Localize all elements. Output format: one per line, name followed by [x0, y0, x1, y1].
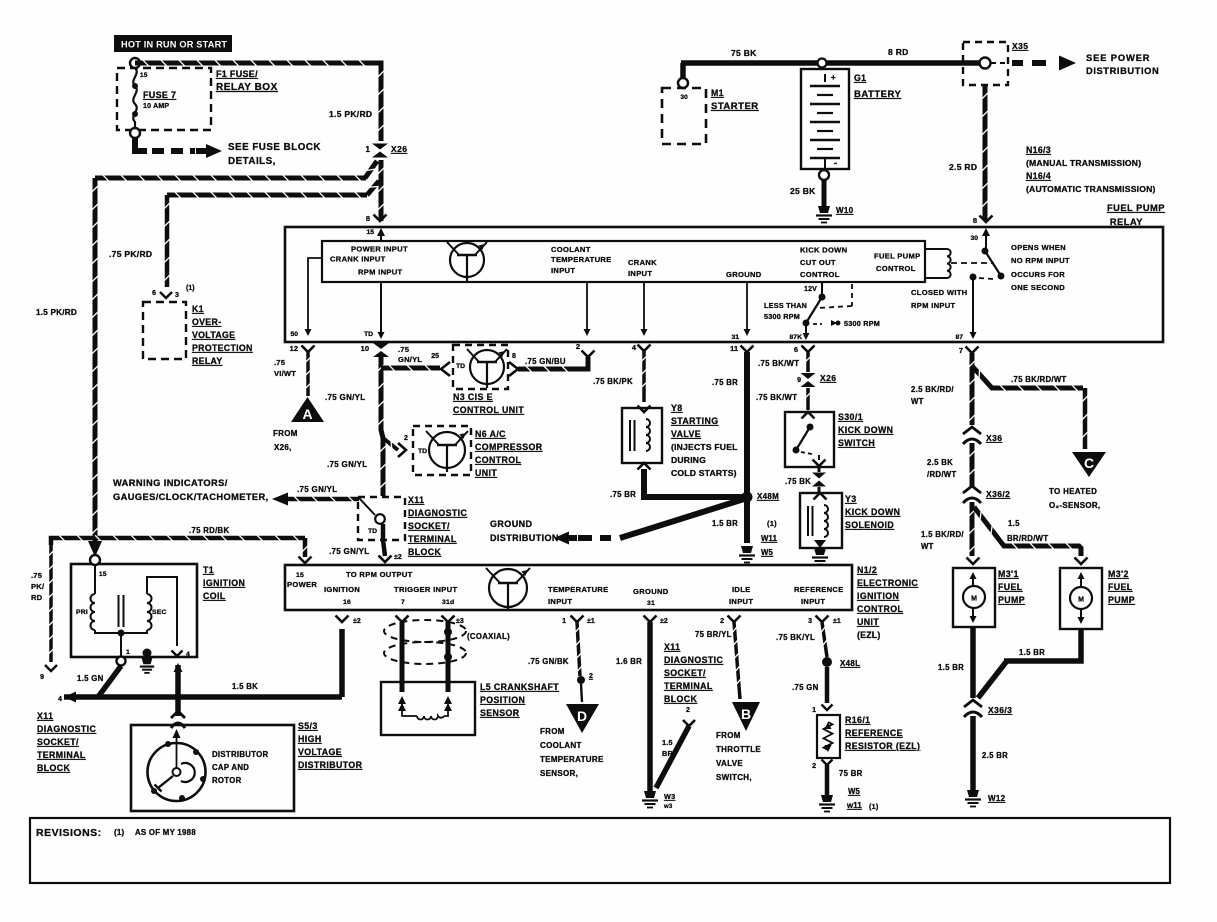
svg-text:±1: ±1 [833, 618, 841, 625]
EZL trigger pins [396, 616, 409, 623]
svg-text:WARNING INDICATORS/: WARNING INDICATORS/ [113, 478, 228, 488]
svg-text:1: 1 [812, 707, 816, 714]
ground W10 [818, 206, 830, 213]
wire M3p1 down to X36/3 [970, 627, 976, 698]
arrow SEE POWER DISTRIBUTION [1012, 60, 1026, 66]
svg-text:INPUT: INPUT [801, 597, 825, 606]
svg-text:(INJECTS FUEL: (INJECTS FUEL [671, 442, 738, 452]
svg-text:S30/1: S30/1 [838, 412, 863, 422]
svg-text:1.5: 1.5 [662, 738, 673, 747]
svg-text:TEMPERATURE: TEMPERATURE [548, 585, 609, 594]
fuel pump M3p2 box [1075, 558, 1088, 565]
svg-text:INPUT: INPUT [729, 597, 753, 606]
svg-text:X26: X26 [391, 144, 407, 154]
svg-text:RESISTOR (EZL): RESISTOR (EZL) [845, 741, 920, 751]
starter M1 (dashed box) [662, 88, 706, 144]
svg-text:N3 CIS E: N3 CIS E [453, 392, 493, 402]
wire up to EZL ignition pin [339, 629, 345, 697]
svg-text:DIAGNOSTIC: DIAGNOSTIC [37, 724, 96, 734]
svg-text:IDLE: IDLE [732, 585, 751, 594]
svg-text:.75 BK/WT: .75 BK/WT [758, 359, 799, 368]
EZL ground pin [644, 616, 657, 623]
svg-text:BR/RD/WT: BR/RD/WT [1007, 534, 1048, 543]
wire branch to horizontal run A [365, 161, 377, 178]
svg-text:S5/3: S5/3 [298, 721, 318, 731]
svg-text:(1): (1) [869, 802, 879, 811]
svg-text:.75 BK/RD/WT: .75 BK/RD/WT [1011, 375, 1067, 384]
svg-text:DIAGNOSTIC: DIAGNOSTIC [664, 655, 723, 665]
connector X36 [963, 427, 981, 434]
wire Y8 to X48M (.75 BR) [644, 469, 744, 497]
svg-text:REFERENCE: REFERENCE [845, 728, 903, 738]
svg-text:D: D [577, 708, 587, 724]
svg-text:BR: BR [662, 749, 673, 758]
battery bottom terminal + wire 25 BK [819, 170, 829, 180]
svg-text:FROM: FROM [540, 727, 565, 736]
wire arrow into T1 terminal 15 [88, 541, 102, 557]
svg-text:FUEL PUMP: FUEL PUMP [1107, 203, 1165, 213]
wire X26 down to relay pin 15 [379, 160, 384, 221]
N6 A/C compressor control unit (dashed box) [413, 426, 471, 475]
svg-text:X11: X11 [37, 711, 53, 721]
svg-text:FROM: FROM [716, 731, 741, 740]
svg-text:A: A [302, 406, 312, 422]
T1 core [118, 595, 120, 627]
ground W12 [967, 790, 979, 797]
wire trigger right [446, 622, 451, 692]
svg-text:DURING: DURING [671, 455, 706, 465]
battery G1 cells [824, 74, 826, 82]
fuse/relay box F1 (dashed) [117, 68, 211, 130]
motor M3p2 [1070, 587, 1092, 609]
svg-text:15: 15 [140, 72, 148, 79]
svg-text:7: 7 [959, 346, 963, 355]
svg-text:8: 8 [973, 216, 977, 225]
distributor S5/3 box [131, 725, 294, 811]
svg-text:RD: RD [31, 593, 43, 602]
wire .75 BK/WT upper [806, 352, 810, 372]
battery G1 junction [818, 59, 827, 68]
N3 CIS E control unit (dashed box) [453, 345, 508, 389]
svg-text:G1: G1 [854, 73, 866, 83]
svg-text:SOLENOID: SOLENOID [845, 520, 894, 530]
wire X35 down to relay pin 30 (2.5 RD) [983, 85, 988, 220]
svg-text:DISTRIBUTOR: DISTRIBUTOR [212, 750, 269, 759]
svg-text:FUEL: FUEL [1108, 582, 1133, 592]
svg-text:.75 BK/YL: .75 BK/YL [776, 633, 815, 642]
svg-text:BLOCK: BLOCK [408, 547, 442, 557]
svg-text:(1): (1) [186, 285, 195, 292]
svg-text:STARTING: STARTING [671, 416, 719, 426]
T1 bottom junction [95, 630, 147, 633]
svg-text:.75 GN/YL: .75 GN/YL [325, 393, 366, 402]
svg-text:BATTERY: BATTERY [854, 89, 901, 100]
svg-text:7: 7 [401, 599, 405, 606]
svg-text:±2: ±2 [353, 618, 361, 625]
svg-text:CRANK: CRANK [628, 258, 657, 267]
EZL N1/2 box [285, 565, 852, 610]
svg-text:.75 GN/BU: .75 GN/BU [525, 357, 566, 366]
triangle C [1072, 452, 1106, 477]
wire 12V switch to pin 87K [805, 326, 807, 334]
svg-text:CONTROL: CONTROL [475, 455, 522, 465]
svg-text:CONTROL: CONTROL [857, 604, 904, 614]
svg-text:X36: X36 [986, 433, 1002, 443]
svg-text:12: 12 [290, 344, 298, 353]
svg-text:(MANUAL TRANSMISSION): (MANUAL TRANSMISSION) [1026, 158, 1141, 168]
svg-text:.75 BR: .75 BR [610, 490, 636, 499]
relay inner control box [322, 241, 925, 282]
svg-text:Y8: Y8 [671, 403, 683, 413]
svg-text:COLD STARTS): COLD STARTS) [671, 468, 737, 478]
svg-text:TERMINAL: TERMINAL [37, 750, 86, 760]
svg-text:TERMINAL: TERMINAL [408, 534, 457, 544]
svg-text:1: 1 [562, 618, 566, 625]
wire 2.5 BR to W12 [970, 716, 976, 790]
svg-text:CLOSED WITH: CLOSED WITH [911, 288, 967, 297]
svg-text:SEE POWER: SEE POWER [1086, 53, 1150, 63]
svg-text:X11: X11 [664, 642, 680, 652]
svg-text:2.5 BR: 2.5 BR [982, 751, 1008, 760]
svg-text:31: 31 [731, 334, 739, 341]
distributor cap contacts [165, 741, 171, 747]
svg-text:DETAILS,: DETAILS, [228, 156, 276, 167]
svg-text:SOCKET/: SOCKET/ [37, 737, 79, 747]
svg-text:1.5 BK: 1.5 BK [232, 682, 258, 691]
T1 terminal 4 chevron [172, 651, 183, 657]
svg-text:COMPRESSOR: COMPRESSOR [475, 442, 543, 452]
svg-text:CAP AND: CAP AND [212, 763, 249, 772]
svg-text:(EZL): (EZL) [857, 630, 880, 640]
svg-text:PUMP: PUMP [998, 595, 1025, 605]
wire diagonal to ground distribution [620, 499, 744, 538]
wire .75 VI/WT to A [306, 352, 310, 396]
svg-text:1.5 BR: 1.5 BR [712, 519, 738, 528]
svg-text:INPUT: INPUT [628, 269, 652, 278]
arrow SEE FUSE BLOCK [206, 144, 222, 158]
svg-text:WT: WT [921, 542, 934, 551]
svg-text:.75 RD/BK: .75 RD/BK [189, 526, 229, 535]
connector X36/3 [964, 700, 982, 707]
svg-text:4: 4 [58, 696, 62, 703]
svg-text:HOT IN RUN OR START: HOT IN RUN OR START [121, 40, 227, 50]
T1 ignition coil box [71, 564, 197, 657]
svg-text:THROTTLE: THROTTLE [716, 745, 761, 754]
battery G1 box [801, 69, 849, 169]
Y8 bottom chevron [638, 463, 651, 470]
arrow + wire to warning indicators [272, 493, 288, 506]
junction X48M [742, 492, 753, 503]
svg-text:HIGH: HIGH [298, 734, 322, 744]
svg-text:COIL: COIL [203, 591, 226, 601]
svg-text:X26,: X26, [274, 443, 292, 452]
connector X36/2 [963, 486, 981, 493]
svg-text:TD: TD [364, 331, 373, 338]
wire fuse bottom to see-fuse-block arrow [135, 138, 147, 151]
svg-text:REVISIONS:: REVISIONS: [36, 827, 102, 839]
svg-text:INPUT: INPUT [548, 597, 572, 606]
svg-text:75 BR: 75 BR [839, 769, 863, 778]
transistor in N6 [429, 432, 465, 468]
svg-text:RPM INPUT: RPM INPUT [358, 268, 403, 277]
branch wire to M3p2 (1.5 BR/RD/WT) [974, 507, 1081, 556]
svg-text:WT: WT [911, 397, 924, 406]
svg-text:9: 9 [40, 674, 44, 681]
svg-text:DISTRIBUTION: DISTRIBUTION [490, 533, 559, 543]
svg-text:.75: .75 [31, 571, 43, 580]
distributor cap circle [148, 743, 206, 801]
svg-text:F1 FUSE/: F1 FUSE/ [216, 69, 258, 79]
svg-text:VOLTAGE: VOLTAGE [298, 747, 342, 757]
wire .75 GN/BU to relay pin 2 [518, 357, 588, 369]
svg-text:2: 2 [720, 618, 724, 625]
svg-text:SENSOR: SENSOR [480, 708, 520, 718]
revisions box [30, 818, 1170, 883]
wire down to K1 [165, 195, 170, 287]
wire 1.5 GN from T1 terminal 1 [98, 666, 121, 697]
distributor rotor arm [158, 776, 173, 788]
Y3 kick down solenoid box [800, 493, 842, 548]
Y8 valve top chevron [638, 406, 651, 413]
svg-text:KICK DOWN: KICK DOWN [845, 507, 900, 517]
svg-text:ELECTRONIC: ELECTRONIC [857, 578, 918, 588]
T1 secondary loop to terminal 4 [147, 577, 177, 646]
svg-text:.75 BR: .75 BR [712, 378, 738, 387]
label HOT IN RUN OR START [114, 35, 232, 52]
svg-text:50: 50 [290, 331, 298, 338]
svg-text:±1: ±1 [587, 618, 595, 625]
svg-text:IGNITION: IGNITION [203, 578, 245, 588]
transistor in N3 [470, 350, 504, 384]
svg-text:(AUTOMATIC TRANSMISSION): (AUTOMATIC TRANSMISSION) [1026, 184, 1156, 194]
svg-text:75 BR/YL: 75 BR/YL [695, 630, 732, 639]
N3 pin 8 chevron [509, 362, 518, 376]
svg-text:FUSE 7: FUSE 7 [143, 90, 176, 100]
ground W11/W5 [741, 546, 753, 553]
svg-text:31d: 31d [442, 599, 454, 606]
kick down 12V switch [821, 282, 823, 297]
svg-text:OCCURS FOR: OCCURS FOR [1011, 270, 1065, 279]
svg-text:.75 GN/YL: .75 GN/YL [327, 460, 368, 469]
svg-text:31: 31 [647, 600, 655, 607]
wire branch to N3 pin 25 [381, 366, 440, 371]
svg-text:(1): (1) [767, 519, 777, 528]
Y8 starting valve box [622, 408, 662, 463]
svg-text:6: 6 [152, 290, 156, 297]
svg-text:PK/: PK/ [31, 582, 45, 591]
svg-text:N16/4: N16/4 [1026, 171, 1051, 181]
wire branch B to vertical [367, 181, 379, 195]
EZL top pin chevron ±2 [379, 556, 392, 563]
svg-text:W5: W5 [761, 548, 774, 557]
wire .75 RD/BK horizontal [51, 538, 305, 545]
arrow to X11 pin 4 + wire 1.5 BK [64, 692, 76, 703]
svg-text:.75 GN: .75 GN [792, 683, 819, 692]
svg-text:.75: .75 [398, 345, 410, 354]
svg-text:.75: .75 [274, 358, 286, 367]
svg-text:2: 2 [589, 673, 593, 680]
svg-text:PROTECTION: PROTECTION [192, 343, 253, 353]
svg-text:1: 1 [366, 145, 371, 154]
svg-text:GROUND: GROUND [633, 587, 669, 596]
triangle D [566, 704, 599, 733]
svg-text:W10: W10 [836, 206, 854, 215]
svg-text:TRIGGER INPUT: TRIGGER INPUT [394, 585, 457, 594]
fuel pump control coil [925, 248, 947, 250]
svg-text:±3: ±3 [456, 618, 464, 625]
svg-text:3: 3 [175, 292, 179, 299]
X11 diagnostic socket (dashed box, TD circle) [358, 497, 405, 540]
svg-text:COOLANT: COOLANT [551, 245, 591, 254]
svg-text:1.5 BR: 1.5 BR [1019, 648, 1045, 657]
svg-text:8: 8 [512, 353, 516, 360]
svg-text:TO RPM OUTPUT: TO RPM OUTPUT [346, 570, 413, 579]
wire chevron to N6 pin 2 [383, 438, 398, 450]
motor M3p1 [963, 586, 985, 608]
svg-text:1.5 PK/RD: 1.5 PK/RD [329, 109, 372, 119]
svg-text:TERMINAL: TERMINAL [664, 681, 713, 691]
svg-text:RELAY: RELAY [192, 356, 223, 366]
fuse F7 symbol [130, 58, 140, 68]
svg-text:ROTOR: ROTOR [212, 776, 242, 785]
svg-text:B: B [741, 706, 751, 722]
svg-text:TD: TD [368, 528, 377, 535]
svg-text:R16/1: R16/1 [845, 715, 870, 725]
svg-text:5300 RPM: 5300 RPM [764, 312, 800, 321]
svg-text:.75 GN/YL: .75 GN/YL [297, 485, 338, 494]
wire ground .75 BR vertical [744, 352, 750, 543]
wire TD main vertical (GN/YL) [381, 357, 383, 496]
relay switch (opens when no rpm) [982, 248, 989, 255]
svg-text:CONTROL: CONTROL [876, 264, 916, 273]
svg-text:15: 15 [296, 572, 304, 579]
svg-text:DISTRIBUTOR: DISTRIBUTOR [298, 760, 363, 770]
svg-text:11: 11 [730, 344, 738, 353]
svg-text:M: M [971, 596, 977, 603]
svg-text:POSITION: POSITION [480, 695, 525, 705]
svg-text:CRANK INPUT: CRANK INPUT [330, 255, 386, 264]
fuel pump M3p1 box [967, 558, 980, 565]
L5 crankshaft position sensor box [381, 682, 475, 735]
svg-text:SOCKET/: SOCKET/ [664, 668, 706, 678]
connector bowtie below S30/1 [818, 467, 821, 472]
svg-text:W11: W11 [761, 534, 778, 543]
svg-text:6: 6 [794, 345, 798, 354]
T1 primary coil [94, 565, 96, 594]
svg-text:IGNITION: IGNITION [324, 585, 360, 594]
svg-text:PUMP: PUMP [1108, 595, 1135, 605]
connector chevron N3 pin 25 [441, 362, 450, 376]
svg-text:FUEL PUMP: FUEL PUMP [874, 252, 920, 261]
svg-text:/RD/WT: /RD/WT [927, 470, 957, 479]
svg-text:C: C [1084, 455, 1094, 471]
svg-text:SOCKET/: SOCKET/ [408, 521, 450, 531]
svg-text:25: 25 [431, 353, 439, 360]
relay K1 over-voltage protection (dashed box) [143, 302, 186, 359]
fuel pump relay outer box [285, 227, 1163, 342]
svg-text:2.5 BK: 2.5 BK [927, 458, 953, 467]
svg-text:IGNITION: IGNITION [857, 591, 899, 601]
dashed 5300 RPM contact [813, 323, 822, 325]
wire 1.6 BR ground [647, 622, 653, 791]
wire horizontal run A (to left vertical) [95, 176, 366, 181]
svg-text:8: 8 [366, 214, 370, 223]
EZL pin ignition ±2 [336, 616, 349, 623]
svg-text:w11: w11 [846, 801, 862, 810]
svg-text:30: 30 [680, 94, 688, 101]
svg-text:DIAGNOSTIC: DIAGNOSTIC [408, 508, 467, 518]
wire .75 GN/BK to D [577, 622, 580, 676]
wire trigger left [400, 622, 405, 692]
svg-text:.75 BK/WT: .75 BK/WT [756, 393, 797, 402]
wire T1 pin 4 down to distributor [174, 663, 183, 672]
crank input line to pin 50 [308, 258, 322, 329]
coaxial shield dashed ellipses [384, 620, 466, 642]
svg-text:POWER: POWER [287, 580, 317, 589]
svg-text:N1/2: N1/2 [857, 565, 877, 575]
wire .75 RD/BK down to EZL pin 15 [303, 538, 308, 557]
svg-text:W5: W5 [848, 787, 861, 796]
svg-text:W3: W3 [664, 792, 675, 801]
svg-text:N16/3: N16/3 [1026, 145, 1051, 155]
svg-text:2: 2 [686, 707, 690, 714]
svg-text:2.5 BK/RD/: 2.5 BK/RD/ [911, 385, 954, 394]
svg-text:(1): (1) [114, 828, 125, 837]
svg-text:X36/2: X36/2 [986, 489, 1010, 499]
distributor rotor arrow [173, 729, 181, 738]
svg-text:ONE SECOND: ONE SECOND [1011, 283, 1065, 292]
svg-text:GROUND: GROUND [490, 519, 532, 529]
svg-text:POWER INPUT: POWER INPUT [351, 245, 408, 254]
svg-text:UNIT: UNIT [475, 468, 497, 478]
svg-text:3: 3 [808, 618, 812, 625]
ground W5/w11 [821, 795, 833, 802]
svg-text:W12: W12 [988, 794, 1006, 803]
starter M1 terminal [680, 63, 686, 79]
svg-text:±2: ±2 [660, 618, 668, 625]
wire .75 BK/YL [822, 622, 827, 657]
wire 75 BR to ground [825, 765, 830, 795]
svg-text:TO HEATED: TO HEATED [1049, 487, 1097, 496]
wire fuse top to X26 (1.5 PK/RD) [135, 63, 381, 141]
svg-text:X36/3: X36/3 [988, 705, 1012, 715]
svg-text:STARTER: STARTER [711, 101, 759, 112]
svg-text:O₂-SENSOR,: O₂-SENSOR, [1049, 501, 1100, 510]
T1 secondary coil [147, 594, 152, 630]
svg-text:X35: X35 [1012, 41, 1028, 51]
connector X35 (dashed box) [963, 42, 1008, 85]
kick down switch S30/1 box [785, 412, 834, 467]
dashed link coil to switch [951, 262, 994, 264]
svg-text:REFERENCE: REFERENCE [794, 585, 844, 594]
svg-text:12V: 12V [804, 286, 817, 293]
svg-text:87: 87 [955, 334, 963, 341]
wire left vertical 1.5 PK/RD [93, 178, 98, 542]
svg-text:.75 GN/BK: .75 GN/BK [528, 657, 569, 666]
svg-text:2: 2 [404, 435, 408, 442]
transistor in EZL [489, 569, 527, 607]
svg-text:75 BK: 75 BK [731, 48, 757, 58]
svg-text:16: 16 [343, 599, 351, 606]
svg-text:FUEL: FUEL [998, 582, 1023, 592]
svg-text:L5 CRANKSHAFT: L5 CRANKSHAFT [480, 682, 559, 692]
svg-text:COOLANT: COOLANT [540, 741, 582, 750]
wire 75 BR/YL to B [734, 622, 740, 699]
svg-text:X48L: X48L [840, 659, 860, 668]
svg-text:VOLTAGE: VOLTAGE [192, 330, 235, 340]
svg-text:5300 RPM: 5300 RPM [844, 319, 880, 328]
svg-text:2.5 RD: 2.5 RD [949, 162, 977, 172]
